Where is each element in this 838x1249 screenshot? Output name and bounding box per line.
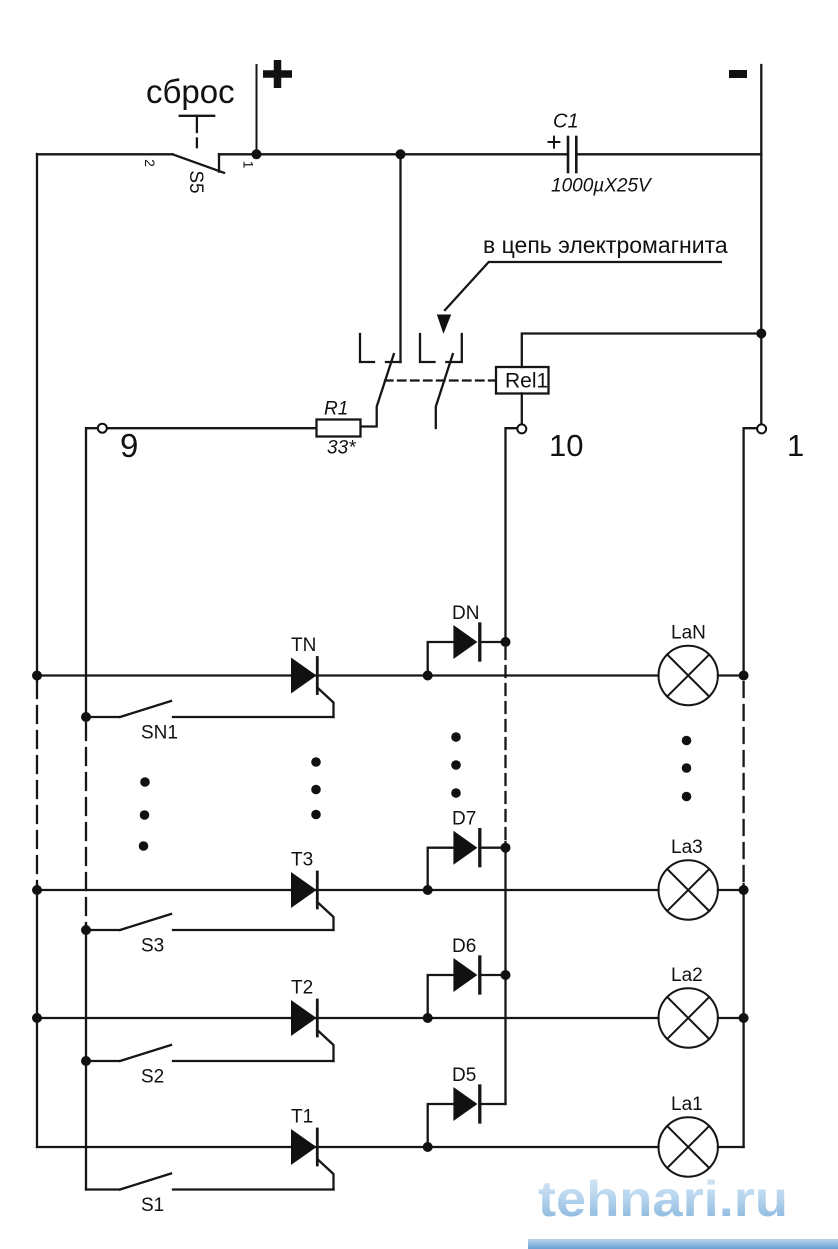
- svg-text:1000µX25V: 1000µX25V: [551, 176, 653, 197]
- svg-text:сброс: сброс: [146, 73, 235, 110]
- svg-text:La1: La1: [671, 1094, 703, 1115]
- svg-text:SN1: SN1: [141, 723, 178, 744]
- svg-text:T3: T3: [291, 850, 313, 871]
- svg-text:D5: D5: [452, 1065, 476, 1086]
- svg-text:DN: DN: [452, 603, 479, 624]
- svg-text:D6: D6: [452, 936, 476, 957]
- svg-text:D7: D7: [452, 809, 476, 830]
- svg-text:La2: La2: [671, 965, 703, 986]
- svg-text:TN: TN: [291, 635, 316, 656]
- svg-text:2: 2: [142, 159, 158, 167]
- svg-text:La3: La3: [671, 837, 703, 858]
- svg-text:tehnari.ru: tehnari.ru: [538, 1171, 788, 1227]
- svg-text:33*: 33*: [327, 438, 356, 459]
- svg-text:S2: S2: [141, 1067, 164, 1088]
- svg-text:C1: C1: [553, 111, 579, 133]
- svg-text:T2: T2: [291, 978, 313, 999]
- svg-text:S3: S3: [141, 936, 164, 957]
- svg-text:LaN: LaN: [671, 623, 706, 644]
- svg-text:S5: S5: [185, 170, 206, 193]
- svg-text:9: 9: [120, 427, 138, 464]
- svg-text:T1: T1: [291, 1107, 313, 1128]
- svg-text:1: 1: [241, 161, 257, 169]
- svg-text:R1: R1: [324, 399, 348, 420]
- svg-text:в цепь электромагнита: в цепь электромагнита: [483, 232, 728, 258]
- svg-text:1: 1: [787, 428, 804, 463]
- svg-text:10: 10: [549, 428, 583, 463]
- svg-text:S1: S1: [141, 1195, 164, 1216]
- svg-text:Rel1: Rel1: [505, 370, 548, 393]
